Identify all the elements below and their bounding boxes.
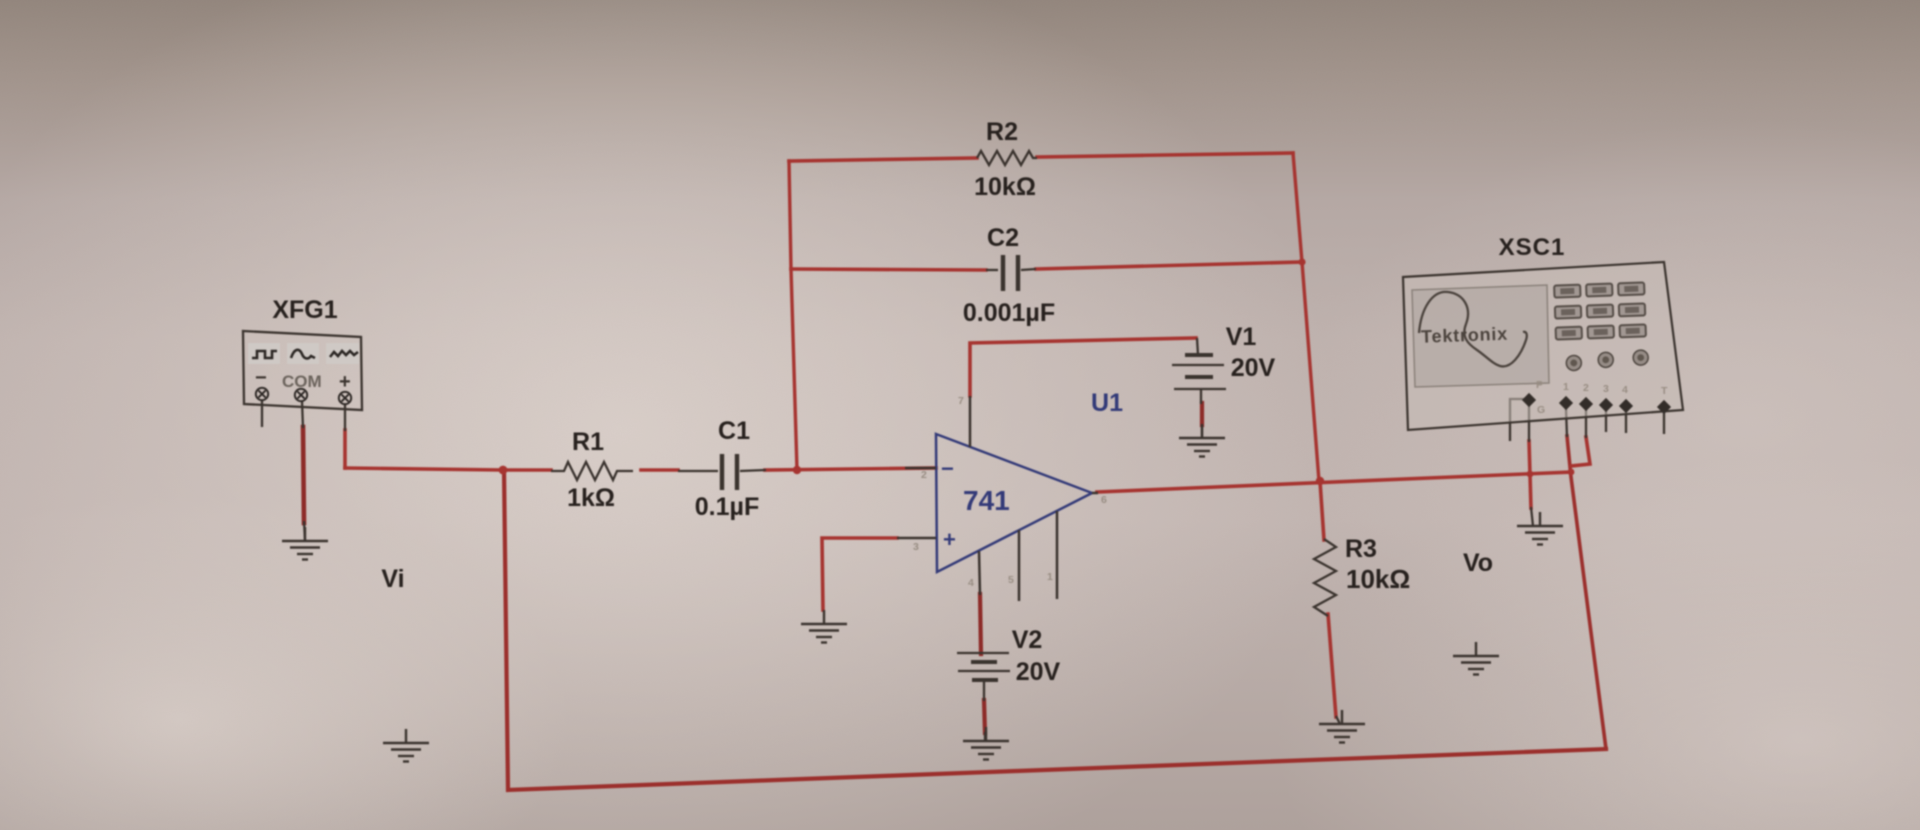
svg-text:7: 7 bbox=[958, 395, 964, 407]
svg-text:V1: V1 bbox=[1226, 323, 1257, 351]
svg-text:3: 3 bbox=[913, 541, 919, 553]
svg-text:10kΩ: 10kΩ bbox=[974, 173, 1036, 201]
svg-text:741: 741 bbox=[963, 485, 1010, 516]
svg-text:−: − bbox=[941, 456, 954, 481]
svg-text:1kΩ: 1kΩ bbox=[567, 484, 615, 512]
svg-text:1: 1 bbox=[1047, 571, 1053, 583]
svg-text:20V: 20V bbox=[1016, 658, 1061, 686]
svg-text:XSC1: XSC1 bbox=[1499, 234, 1566, 261]
svg-text:+: + bbox=[339, 371, 351, 393]
svg-text:2: 2 bbox=[1583, 382, 1589, 394]
svg-text:R1: R1 bbox=[572, 428, 604, 456]
svg-text:4: 4 bbox=[968, 577, 974, 589]
svg-text:R3: R3 bbox=[1345, 535, 1377, 563]
svg-text:−: − bbox=[255, 367, 267, 389]
svg-text:5: 5 bbox=[1008, 574, 1014, 586]
svg-text:R2: R2 bbox=[986, 118, 1018, 146]
svg-text:10kΩ: 10kΩ bbox=[1346, 564, 1410, 594]
svg-text:2: 2 bbox=[921, 469, 927, 481]
svg-text:P: P bbox=[1536, 379, 1543, 391]
svg-text:6: 6 bbox=[1101, 494, 1107, 506]
svg-text:C2: C2 bbox=[987, 224, 1019, 252]
svg-text:0.001µF: 0.001µF bbox=[963, 299, 1055, 327]
svg-text:0.1µF: 0.1µF bbox=[695, 493, 759, 521]
svg-text:+: + bbox=[943, 527, 956, 552]
svg-text:XFG1: XFG1 bbox=[272, 296, 337, 324]
svg-text:C1: C1 bbox=[718, 417, 750, 445]
svg-text:G: G bbox=[1537, 404, 1545, 416]
svg-text:1: 1 bbox=[1563, 381, 1569, 393]
svg-text:20V: 20V bbox=[1231, 354, 1276, 382]
svg-text:T: T bbox=[1661, 385, 1668, 397]
svg-text:U1: U1 bbox=[1091, 389, 1123, 417]
svg-text:Vo: Vo bbox=[1463, 549, 1493, 577]
svg-text:3: 3 bbox=[1603, 383, 1609, 395]
svg-text:4: 4 bbox=[1622, 384, 1628, 396]
svg-text:V2: V2 bbox=[1012, 626, 1043, 654]
svg-text:Vi: Vi bbox=[381, 565, 404, 593]
